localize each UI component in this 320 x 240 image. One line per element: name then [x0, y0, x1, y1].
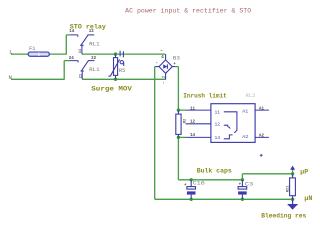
svg-text:11: 11 — [190, 107, 196, 111]
svg-text:R21: R21 — [287, 185, 291, 192]
svg-text:Inrush limit: Inrush limit — [183, 93, 227, 100]
svg-text:12: 12 — [215, 121, 221, 127]
svg-text:R2: R2 — [183, 119, 187, 123]
svg-text:RL2: RL2 — [246, 92, 256, 99]
svg-text:B3: B3 — [173, 55, 180, 62]
svg-text:A1: A1 — [242, 109, 248, 115]
svg-text:N: N — [9, 74, 12, 81]
svg-text:12: 12 — [89, 30, 95, 34]
svg-text:A2: A2 — [259, 135, 265, 139]
svg-text:Bulk caps: Bulk caps — [197, 167, 232, 174]
svg-text:F1: F1 — [29, 45, 36, 52]
svg-text:AC power input & rectifier & S: AC power input & rectifier & STO — [125, 7, 251, 14]
svg-text:11: 11 — [79, 48, 83, 53]
svg-text:µN: µN — [304, 195, 312, 202]
svg-text:Surge MOV: Surge MOV — [91, 85, 132, 92]
svg-text:RL1: RL1 — [89, 66, 100, 73]
svg-text:14: 14 — [69, 30, 75, 34]
svg-text:4: 4 — [161, 56, 164, 60]
svg-text:µP: µP — [300, 169, 308, 176]
svg-text:C3: C3 — [245, 180, 253, 187]
svg-text:RL1: RL1 — [89, 41, 100, 48]
svg-text:~: ~ — [160, 50, 163, 54]
svg-text:11: 11 — [215, 110, 221, 116]
svg-text:14: 14 — [215, 135, 221, 141]
svg-text:A2: A2 — [242, 134, 248, 140]
svg-text:-: - — [156, 62, 159, 66]
svg-text:R5: R5 — [119, 67, 125, 74]
svg-text:~: ~ — [163, 81, 167, 84]
svg-text:2: 2 — [163, 76, 167, 78]
svg-text:12: 12 — [190, 121, 196, 125]
svg-text:A1: A1 — [259, 107, 265, 111]
svg-text:21: 21 — [79, 73, 83, 78]
svg-text:L: L — [9, 49, 12, 56]
svg-text:22: 22 — [91, 57, 97, 61]
svg-text:24: 24 — [69, 57, 75, 61]
svg-text:C16: C16 — [193, 180, 205, 187]
svg-text:Bleeding res: Bleeding res — [261, 213, 306, 220]
svg-text:14: 14 — [190, 134, 196, 138]
